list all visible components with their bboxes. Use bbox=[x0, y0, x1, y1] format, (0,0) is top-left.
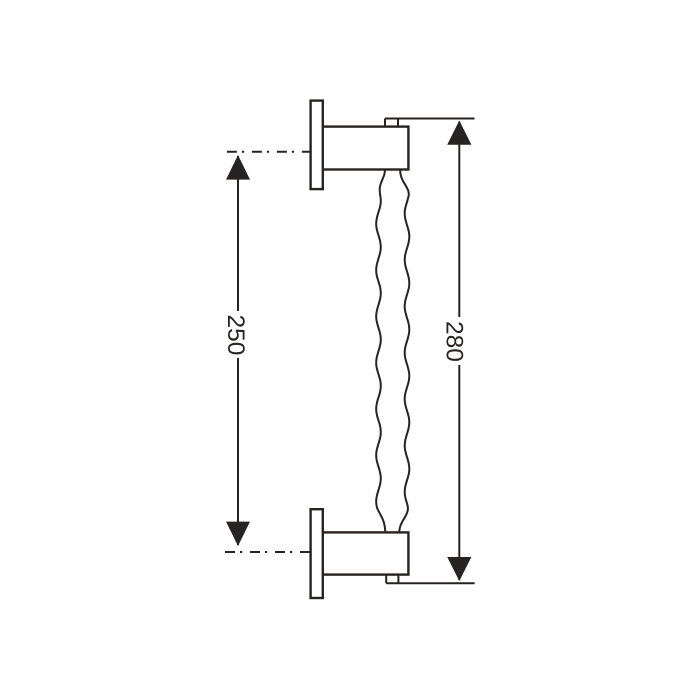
left dimension line 250 bbox=[237, 156, 239, 545]
top centerline bbox=[227, 151, 311, 153]
top extension line bbox=[385, 118, 475, 120]
top spindle tab bbox=[385, 119, 398, 127]
right dim arrow top bbox=[447, 121, 471, 145]
bottom extension line bbox=[386, 582, 475, 584]
svg-text:250: 250 bbox=[222, 315, 249, 356]
svg-text:280: 280 bbox=[441, 321, 468, 362]
right dimension line 280 bbox=[458, 122, 460, 581]
right dim arrow bottom bbox=[447, 557, 471, 581]
bottom centerline bbox=[225, 551, 311, 553]
bottom body bbox=[323, 532, 409, 574]
bottom spindle tab bbox=[386, 575, 398, 584]
left dim arrow bottom bbox=[226, 522, 250, 546]
left dim arrow top bbox=[226, 155, 250, 180]
bottom flange bbox=[311, 509, 323, 598]
wavy grip right edge bbox=[399, 170, 409, 532]
top flange bbox=[311, 101, 323, 190]
wavy grip left edge bbox=[376, 170, 385, 532]
top body bbox=[323, 127, 409, 170]
